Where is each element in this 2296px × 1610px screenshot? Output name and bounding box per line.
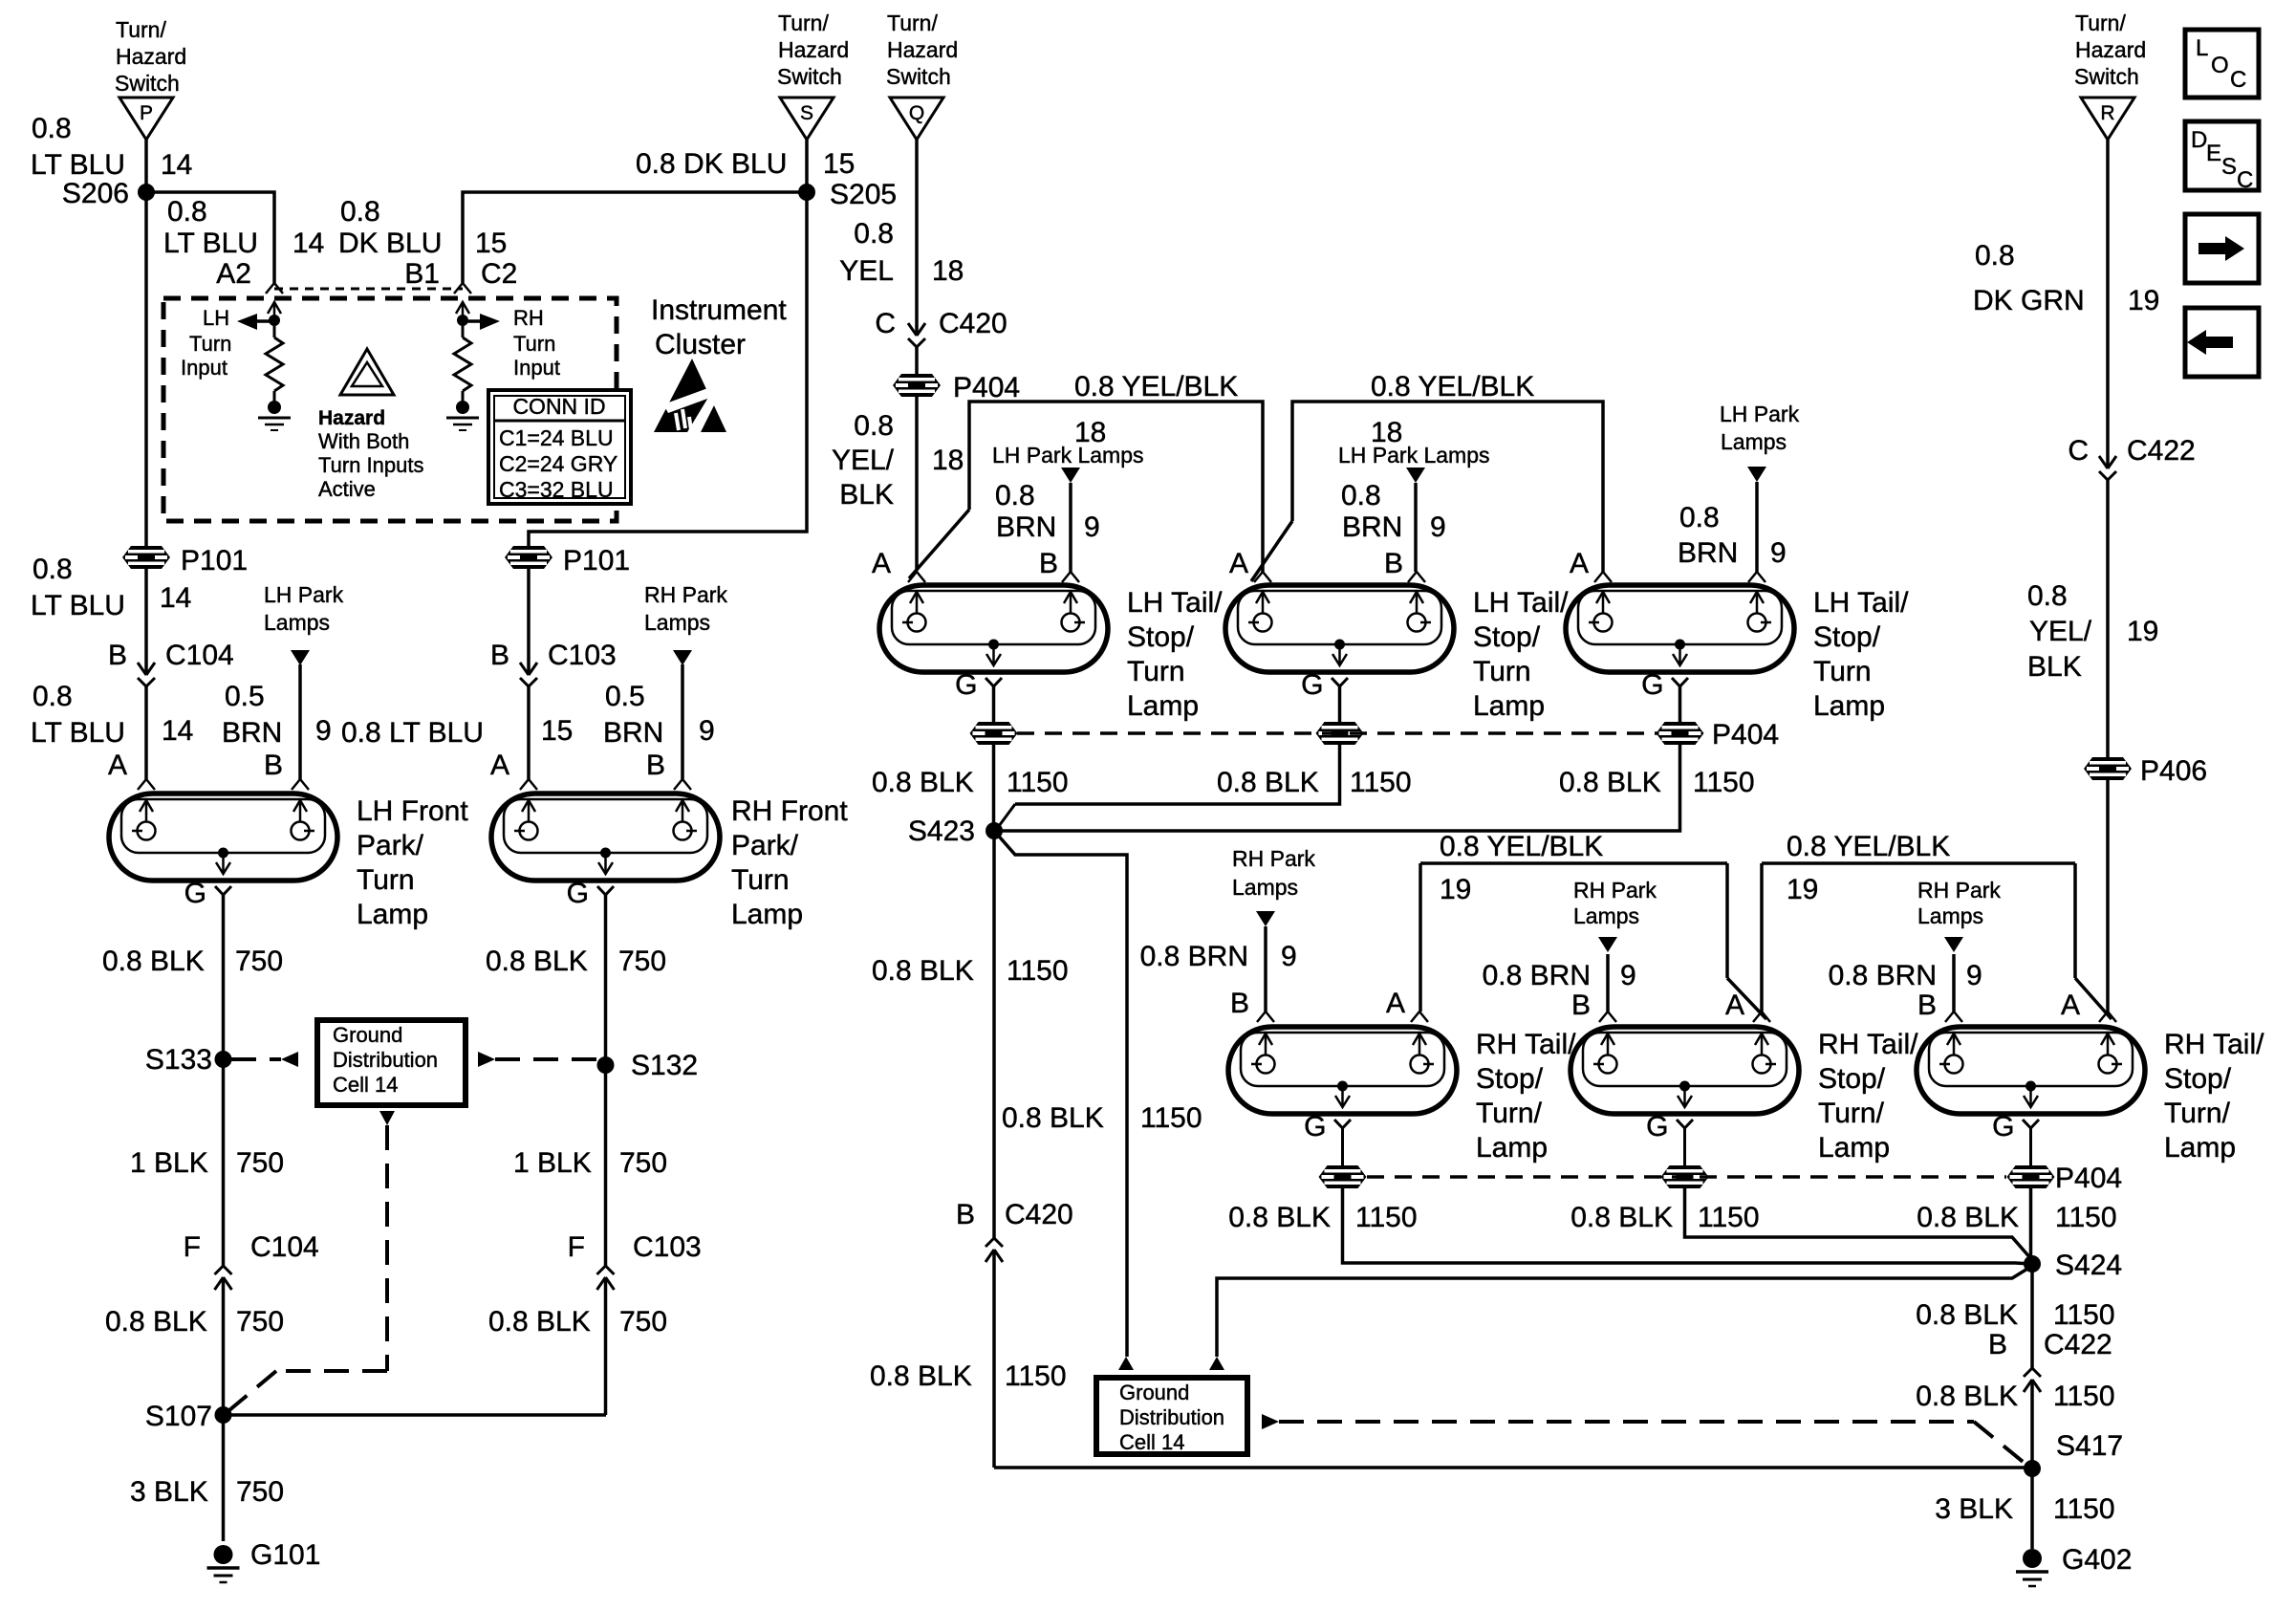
- svg-text:DK GRN: DK GRN: [1973, 285, 2085, 316]
- svg-text:9: 9: [1281, 941, 1297, 972]
- svg-text:C2: C2: [481, 258, 517, 290]
- svg-text:0.8: 0.8: [32, 681, 73, 712]
- svg-text:C103: C103: [548, 640, 617, 671]
- svg-text:Hazard: Hazard: [2075, 37, 2146, 62]
- svg-text:RH Tail/: RH Tail/: [1818, 1029, 1918, 1060]
- svg-text:750: 750: [619, 1147, 667, 1179]
- svg-text:9: 9: [1770, 537, 1787, 569]
- svg-text:0.8 BLK: 0.8 BLK: [105, 1306, 207, 1338]
- svg-text:1150: 1150: [2055, 1202, 2117, 1233]
- svg-text:Input: Input: [181, 356, 227, 380]
- svg-text:BRN: BRN: [1342, 511, 1402, 543]
- svg-text:Park/: Park/: [357, 830, 424, 861]
- svg-text:YEL/: YEL/: [832, 445, 895, 476]
- svg-text:0.8: 0.8: [854, 218, 894, 250]
- svg-text:B: B: [646, 750, 665, 781]
- svg-text:Input: Input: [513, 356, 560, 380]
- svg-text:1150: 1150: [2053, 1493, 2115, 1525]
- svg-text:BLK: BLK: [839, 479, 894, 511]
- svg-text:3 BLK: 3 BLK: [130, 1476, 208, 1508]
- svg-text:Distribution: Distribution: [333, 1048, 438, 1072]
- svg-text:Lamps: Lamps: [1232, 875, 1298, 900]
- svg-text:0.8 BLK: 0.8 BLK: [1916, 1299, 2018, 1331]
- svg-text:C: C: [2237, 167, 2253, 193]
- svg-text:A2: A2: [216, 258, 251, 290]
- svg-text:0.8 BLK: 0.8 BLK: [486, 946, 588, 977]
- svg-text:1150: 1150: [2053, 1299, 2115, 1331]
- svg-text:S424: S424: [2055, 1250, 2122, 1281]
- svg-text:G101: G101: [250, 1539, 320, 1571]
- svg-text:Lamps: Lamps: [264, 610, 330, 635]
- svg-text:0.8 DK BLU: 0.8 DK BLU: [636, 148, 787, 180]
- svg-text:E: E: [2206, 141, 2221, 166]
- svg-text:0.8: 0.8: [32, 113, 72, 144]
- svg-text:Lamp: Lamp: [731, 899, 803, 930]
- svg-text:C103: C103: [633, 1231, 702, 1263]
- svg-text:A: A: [2061, 990, 2080, 1021]
- svg-text:P406: P406: [2140, 755, 2207, 787]
- svg-text:0.8 YEL/BLK: 0.8 YEL/BLK: [1074, 371, 1238, 402]
- svg-text:Switch: Switch: [886, 64, 951, 89]
- svg-text:15: 15: [541, 715, 573, 747]
- svg-text:C3=32 BLU: C3=32 BLU: [499, 477, 614, 502]
- svg-text:DK BLU: DK BLU: [338, 228, 442, 259]
- svg-text:F: F: [568, 1231, 585, 1263]
- svg-text:750: 750: [619, 1306, 667, 1338]
- svg-text:0.8: 0.8: [2027, 580, 2068, 612]
- svg-text:Lamps: Lamps: [1917, 903, 1983, 928]
- svg-text:0.8 BLK: 0.8 BLK: [102, 946, 205, 977]
- svg-text:RH Park: RH Park: [644, 582, 727, 607]
- svg-text:Lamps: Lamps: [644, 610, 710, 635]
- svg-text:RH Front: RH Front: [731, 795, 848, 827]
- svg-text:Turn Inputs: Turn Inputs: [318, 453, 423, 477]
- svg-text:Cluster: Cluster: [655, 329, 746, 360]
- svg-text:LH Park: LH Park: [1720, 402, 1800, 426]
- svg-text:RH Park: RH Park: [1232, 846, 1315, 871]
- svg-text:B: B: [108, 640, 127, 671]
- svg-text:BLK: BLK: [2027, 651, 2082, 683]
- svg-text:1150: 1150: [2053, 1381, 2115, 1412]
- svg-text:B: B: [264, 750, 283, 781]
- svg-text:C422: C422: [2044, 1329, 2112, 1360]
- svg-text:18: 18: [932, 445, 964, 476]
- svg-text:B: B: [1230, 988, 1249, 1019]
- svg-text:D: D: [2191, 127, 2207, 153]
- svg-text:Instrument: Instrument: [651, 294, 787, 326]
- svg-text:P: P: [140, 102, 153, 124]
- svg-text:19: 19: [2127, 616, 2158, 647]
- svg-text:BRN: BRN: [996, 511, 1056, 543]
- svg-text:G: G: [184, 878, 206, 909]
- svg-text:B: B: [1917, 990, 1937, 1021]
- svg-text:Lamps: Lamps: [1573, 903, 1639, 928]
- svg-text:750: 750: [236, 1476, 284, 1508]
- svg-text:C104: C104: [165, 640, 234, 671]
- svg-text:750: 750: [235, 946, 283, 977]
- svg-text:S206: S206: [62, 178, 129, 209]
- svg-text:S205: S205: [830, 179, 897, 210]
- svg-text:S417: S417: [2056, 1430, 2123, 1462]
- svg-text:L: L: [2196, 35, 2208, 61]
- svg-text:750: 750: [236, 1306, 284, 1338]
- svg-text:0.8 BLK: 0.8 BLK: [1559, 767, 1661, 798]
- svg-text:Stop/: Stop/: [1813, 621, 1881, 653]
- svg-text:LH Park Lamps: LH Park Lamps: [992, 443, 1144, 468]
- svg-text:Ground: Ground: [1119, 1381, 1189, 1404]
- svg-text:0.8 BLK: 0.8 BLK: [872, 955, 974, 987]
- svg-text:S: S: [800, 102, 813, 124]
- svg-text:Ground: Ground: [333, 1023, 402, 1047]
- svg-text:G: G: [1992, 1111, 2014, 1142]
- svg-text:Turn: Turn: [357, 864, 415, 896]
- svg-text:9: 9: [1084, 511, 1100, 543]
- svg-text:0.8 BLK: 0.8 BLK: [488, 1306, 591, 1338]
- svg-text:14: 14: [161, 149, 192, 181]
- svg-text:Turn/: Turn/: [1818, 1098, 1885, 1129]
- svg-text:1150: 1150: [1005, 1360, 1067, 1392]
- svg-text:0.8 BLK: 0.8 BLK: [1916, 1381, 2018, 1412]
- svg-text:0.8 BLK: 0.8 BLK: [1228, 1202, 1331, 1233]
- svg-text:B1: B1: [404, 258, 440, 290]
- svg-text:LT BLU: LT BLU: [31, 590, 125, 621]
- svg-text:Turn: Turn: [731, 864, 790, 896]
- svg-text:14: 14: [292, 228, 324, 259]
- svg-text:A: A: [872, 548, 891, 579]
- svg-text:YEL: YEL: [839, 255, 894, 287]
- svg-text:BRN: BRN: [603, 717, 663, 749]
- svg-text:0.8 BLK: 0.8 BLK: [1570, 1202, 1673, 1233]
- svg-text:0.8 BLK: 0.8 BLK: [870, 1360, 972, 1392]
- svg-text:C104: C104: [250, 1231, 319, 1263]
- svg-text:Lamp: Lamp: [1473, 690, 1545, 722]
- svg-text:YEL/: YEL/: [2029, 616, 2092, 647]
- svg-text:Turn: Turn: [189, 332, 231, 356]
- svg-text:F: F: [184, 1231, 201, 1263]
- svg-text:0.8 BLK: 0.8 BLK: [1002, 1102, 1104, 1134]
- svg-text:G: G: [1641, 669, 1663, 701]
- svg-text:18: 18: [932, 255, 964, 287]
- svg-text:C420: C420: [939, 308, 1007, 339]
- svg-text:LT BLU: LT BLU: [31, 717, 125, 749]
- svg-text:1 BLK: 1 BLK: [513, 1147, 592, 1179]
- svg-text:Lamp: Lamp: [2164, 1132, 2236, 1164]
- svg-text:C: C: [2230, 67, 2246, 93]
- svg-text:Turn/: Turn/: [778, 11, 829, 35]
- svg-text:14: 14: [162, 715, 193, 747]
- svg-text:9: 9: [315, 715, 332, 747]
- svg-text:RH Tail/: RH Tail/: [1476, 1029, 1576, 1060]
- svg-text:Switch: Switch: [777, 64, 842, 89]
- svg-text:0.8: 0.8: [32, 554, 73, 585]
- svg-text:C: C: [2068, 435, 2089, 467]
- svg-text:Hazard: Hazard: [887, 37, 958, 62]
- svg-text:1150: 1150: [1350, 767, 1412, 798]
- svg-text:19: 19: [1787, 874, 1818, 905]
- svg-text:CONN ID: CONN ID: [512, 394, 605, 419]
- svg-text:G: G: [1304, 1111, 1326, 1142]
- svg-text:9: 9: [1966, 960, 1982, 991]
- svg-text:B: B: [490, 640, 509, 671]
- svg-text:C1=24 BLU: C1=24 BLU: [499, 425, 614, 450]
- svg-text:0.8 BLK: 0.8 BLK: [872, 767, 974, 798]
- svg-text:B: B: [1039, 548, 1058, 579]
- svg-text:0.8: 0.8: [1679, 502, 1720, 533]
- svg-text:Q: Q: [909, 102, 924, 124]
- svg-text:Hazard: Hazard: [778, 37, 849, 62]
- svg-text:With Both: With Both: [318, 429, 409, 453]
- svg-text:A: A: [1229, 548, 1248, 579]
- svg-text:Lamp: Lamp: [1476, 1132, 1548, 1164]
- svg-text:BRN: BRN: [222, 717, 282, 749]
- svg-text:Park/: Park/: [731, 830, 799, 861]
- svg-text:LH Park Lamps: LH Park Lamps: [1338, 443, 1490, 468]
- svg-text:Switch: Switch: [2074, 64, 2139, 89]
- svg-text:Turn/: Turn/: [2164, 1098, 2231, 1129]
- svg-text:15: 15: [823, 148, 855, 180]
- svg-text:Hazard: Hazard: [318, 407, 385, 429]
- svg-text:19: 19: [1440, 874, 1471, 905]
- svg-text:Stop/: Stop/: [1476, 1063, 1544, 1095]
- svg-text:14: 14: [160, 582, 191, 614]
- svg-text:C: C: [875, 308, 896, 339]
- svg-text:1150: 1150: [1698, 1202, 1760, 1233]
- svg-text:0.5: 0.5: [225, 681, 265, 712]
- svg-text:A: A: [1386, 988, 1405, 1019]
- svg-text:0.8: 0.8: [1975, 240, 2015, 272]
- svg-text:BRN: BRN: [1678, 537, 1738, 569]
- svg-text:9: 9: [1430, 511, 1446, 543]
- svg-text:Turn/: Turn/: [1476, 1098, 1543, 1129]
- svg-text:LH Tail/: LH Tail/: [1473, 587, 1569, 619]
- svg-text:Hazard: Hazard: [116, 44, 186, 69]
- svg-text:0.8: 0.8: [995, 480, 1035, 511]
- svg-text:9: 9: [1620, 960, 1636, 991]
- svg-text:P404: P404: [1712, 719, 1779, 751]
- svg-text:Active: Active: [318, 477, 376, 501]
- svg-text:A: A: [108, 750, 127, 781]
- svg-text:Turn: Turn: [513, 332, 555, 356]
- svg-text:Turn: Turn: [1473, 656, 1531, 687]
- svg-text:RH Park: RH Park: [1573, 878, 1657, 903]
- svg-text:P404: P404: [2055, 1163, 2122, 1194]
- svg-text:Turn/: Turn/: [2075, 11, 2126, 35]
- svg-text:Cell 14: Cell 14: [333, 1073, 398, 1097]
- svg-text:Turn: Turn: [1813, 656, 1872, 687]
- svg-text:C420: C420: [1005, 1199, 1073, 1230]
- svg-text:0.8: 0.8: [167, 196, 207, 228]
- svg-text:1150: 1150: [1140, 1102, 1202, 1134]
- svg-text:3 BLK: 3 BLK: [1935, 1493, 2013, 1525]
- svg-text:G: G: [1646, 1111, 1668, 1142]
- svg-text:0.8 YEL/BLK: 0.8 YEL/BLK: [1440, 831, 1603, 862]
- svg-text:0.8 BRN: 0.8 BRN: [1140, 941, 1248, 972]
- svg-text:1 BLK: 1 BLK: [130, 1147, 208, 1179]
- svg-text:O: O: [2211, 53, 2229, 78]
- svg-text:0.8: 0.8: [854, 410, 894, 442]
- svg-text:0.8: 0.8: [1341, 480, 1381, 511]
- svg-text:G: G: [1301, 669, 1323, 701]
- svg-text:9: 9: [699, 715, 715, 747]
- svg-text:Turn: Turn: [1127, 656, 1185, 687]
- svg-text:LH Tail/: LH Tail/: [1127, 587, 1223, 619]
- svg-text:Distribution: Distribution: [1119, 1405, 1224, 1429]
- svg-text:Lamp: Lamp: [1813, 690, 1885, 722]
- svg-text:LH Tail/: LH Tail/: [1813, 587, 1909, 619]
- svg-text:G: G: [955, 669, 977, 701]
- svg-text:0.5: 0.5: [605, 681, 645, 712]
- svg-text:LH Park: LH Park: [264, 582, 344, 607]
- svg-text:B: B: [1571, 990, 1591, 1021]
- svg-text:Stop/: Stop/: [1473, 621, 1541, 653]
- svg-text:Lamps: Lamps: [1721, 429, 1787, 454]
- svg-text:RH Tail/: RH Tail/: [2164, 1029, 2264, 1060]
- svg-text:0.8 YEL/BLK: 0.8 YEL/BLK: [1787, 831, 1950, 862]
- svg-text:0.8 BRN: 0.8 BRN: [1483, 960, 1591, 991]
- svg-text:1150: 1150: [1355, 1202, 1418, 1233]
- svg-text:0.8 BLK: 0.8 BLK: [1917, 1202, 2019, 1233]
- svg-text:0.8 LT BLU: 0.8 LT BLU: [341, 717, 484, 749]
- svg-text:Stop/: Stop/: [1127, 621, 1195, 653]
- svg-text:Switch: Switch: [115, 71, 180, 96]
- svg-text:Turn/: Turn/: [116, 17, 166, 42]
- svg-text:LT BLU: LT BLU: [31, 149, 125, 181]
- svg-text:S133: S133: [145, 1044, 212, 1076]
- svg-text:0.8 BRN: 0.8 BRN: [1829, 960, 1937, 991]
- svg-text:Stop/: Stop/: [1818, 1063, 1886, 1095]
- svg-text:P404: P404: [953, 372, 1020, 403]
- svg-text:19: 19: [2128, 285, 2159, 316]
- svg-text:S132: S132: [631, 1050, 698, 1081]
- svg-text:Lamp: Lamp: [1127, 690, 1199, 722]
- svg-text:15: 15: [475, 228, 507, 259]
- svg-text:0.8: 0.8: [340, 196, 380, 228]
- svg-text:1150: 1150: [1007, 955, 1069, 987]
- svg-text:P101: P101: [563, 545, 630, 577]
- svg-text:750: 750: [236, 1147, 284, 1179]
- svg-text:A: A: [1570, 548, 1589, 579]
- svg-text:RH Park: RH Park: [1917, 878, 2001, 903]
- svg-text:P101: P101: [181, 545, 248, 577]
- svg-text:0.8 YEL/BLK: 0.8 YEL/BLK: [1371, 371, 1534, 402]
- svg-text:C422: C422: [2127, 435, 2196, 467]
- svg-text:S423: S423: [908, 816, 975, 847]
- svg-text:B: B: [956, 1199, 975, 1230]
- svg-text:LT BLU: LT BLU: [163, 228, 258, 259]
- svg-text:Cell 14: Cell 14: [1119, 1430, 1184, 1454]
- svg-text:S107: S107: [145, 1401, 212, 1432]
- svg-text:G: G: [567, 878, 589, 909]
- svg-text:B: B: [1384, 548, 1403, 579]
- svg-text:RH: RH: [513, 306, 544, 330]
- svg-text:750: 750: [618, 946, 666, 977]
- svg-text:A: A: [490, 750, 509, 781]
- svg-text:S: S: [2221, 154, 2237, 180]
- svg-text:LH Front: LH Front: [357, 795, 468, 827]
- svg-text:Stop/: Stop/: [2164, 1063, 2232, 1095]
- svg-text:Lamp: Lamp: [357, 899, 428, 930]
- svg-text:G402: G402: [2062, 1544, 2132, 1576]
- svg-text:0.8 BLK: 0.8 BLK: [1217, 767, 1319, 798]
- svg-text:R: R: [2100, 102, 2114, 124]
- svg-text:B: B: [1988, 1329, 2007, 1360]
- svg-text:A: A: [1725, 990, 1744, 1021]
- svg-text:Lamp: Lamp: [1818, 1132, 1890, 1164]
- svg-text:Turn/: Turn/: [887, 11, 938, 35]
- svg-text:LH: LH: [203, 306, 229, 330]
- svg-text:1150: 1150: [1693, 767, 1755, 798]
- svg-text:C2=24 GRY: C2=24 GRY: [499, 451, 617, 476]
- svg-text:1150: 1150: [1007, 767, 1069, 798]
